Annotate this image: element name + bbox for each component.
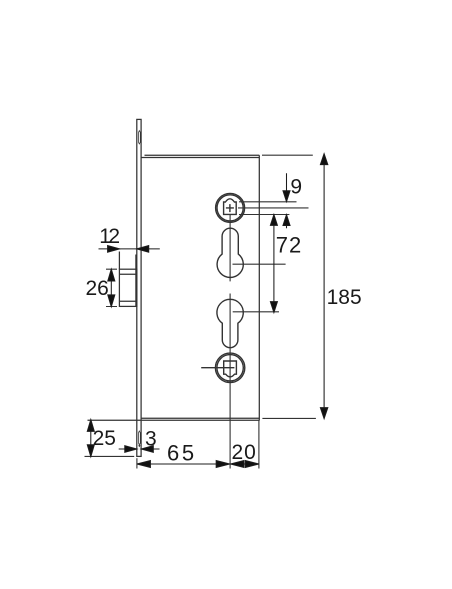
dim 9 line [286,173,288,228]
dim 26 arrow down [108,295,115,307]
boss square bottom tick line (9 bottom / 72 top) [239,214,289,216]
dim 12 arrow right [108,246,120,253]
faceplate bottom bevel lower tip [139,445,140,447]
bottom boss cross line from left [201,367,234,369]
dim 20 arrow right [245,461,259,468]
top boss cross [226,204,234,212]
boss square top tick line (9 top) [239,201,297,203]
svg-text:12: 12 [99,225,119,248]
dim 65 arrow right [216,461,230,468]
bottom boss inner circle [217,355,243,381]
svg-text:65: 65 [167,440,197,465]
lock body top edge [141,155,259,157]
185 top extension line [262,154,313,156]
top boss outer circle [216,193,245,222]
svg-text:26: 26 [86,277,109,300]
dim 65-20 line [137,463,259,465]
lower keyhole [217,299,243,347]
lock body bottom edge [88,418,260,420]
dim 72 line [273,215,275,312]
svg-text:9: 9 [290,176,302,199]
cam box right edge line [135,255,137,307]
lock body right edge [258,155,260,420]
upper keyhole [217,228,243,277]
svg-text:185: 185 [327,286,362,309]
faceplate bottom bevel detail [139,431,141,445]
dim 3 arrow right [125,446,137,453]
dim 26 arrow up [108,269,115,281]
top boss follower square with dome [224,199,237,215]
faceplate top bevel detail [139,131,141,144]
svg-text:20: 20 [232,441,257,464]
dim 3 arrow left [141,446,153,453]
top boss inner circle [217,195,243,221]
bottom boss follower square with dome [224,361,237,377]
dim 26 line [110,269,112,306]
dim 9 arrow up [283,215,290,226]
dim 3 lines [119,448,160,450]
25 bottom tick (faceplate bottom) [85,455,135,457]
svg-text:25: 25 [93,427,116,450]
svg-text:3: 3 [145,427,157,450]
boss center tick line [238,207,309,209]
dim 25 line [90,420,92,457]
vertical centerline [229,215,231,469]
dim 9 arrow down [283,191,290,202]
lower keyhole center tick [233,311,279,313]
dim 72 arrow up [270,215,277,226]
dim 25 arrow up [87,420,94,432]
svg-text:72: 72 [276,232,302,257]
dim 185 arrow down [320,408,327,419]
faceplate [137,119,141,456]
dim 12 line [99,248,160,250]
dim 25 arrow down [87,445,94,457]
faceplate left bottom extension [136,458,138,468]
26 ticks [106,269,117,306]
dim 72 arrow down [270,302,277,313]
cam box [119,269,136,306]
upper keyhole center tick [233,263,286,265]
dim 12 arrow left [137,246,149,253]
dim 185 arrow up [320,154,327,165]
bottom right extension [258,421,260,469]
185 bottom extension line [262,417,316,419]
dim 20 arrow left [231,461,245,468]
dim 65 arrow left [137,461,151,468]
dim 185 line [323,154,325,418]
cam box left edge extension [118,252,120,270]
cam box inner lines [119,274,136,301]
bottom boss outer circle [215,353,244,382]
